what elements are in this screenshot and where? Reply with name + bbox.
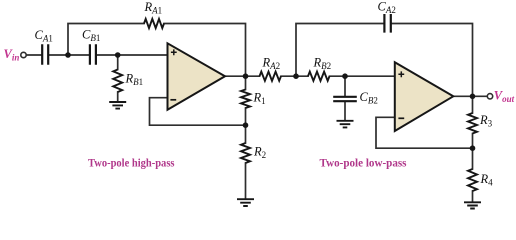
svg-text:CB2: CB2 <box>360 90 378 106</box>
svg-text:Vin: Vin <box>4 47 20 63</box>
wire C_B2 bottom stem to ground <box>344 102 346 120</box>
wire R4 top stem <box>472 148 474 169</box>
resistor RA2 <box>260 72 282 81</box>
op-amp U2 <box>395 62 454 131</box>
svg-text:RA2: RA2 <box>262 56 281 72</box>
resistor RA1 <box>144 19 164 28</box>
capacitor CA1 plates <box>42 44 48 64</box>
resistor RB1 <box>113 70 122 93</box>
wire U1 output to R_A2 <box>225 75 260 77</box>
capacitor CB2 plates <box>333 97 357 101</box>
resistor RB2 <box>308 72 330 81</box>
resistor R3 <box>468 113 477 134</box>
junction R1/R2 feedback node <box>243 122 249 128</box>
wire C_A2 feedback: node C up and across <box>296 24 383 77</box>
junction node A <box>65 52 71 58</box>
ground below R4 <box>464 202 481 208</box>
wire R_A1 feedback: node A up and across <box>68 24 144 56</box>
wire R3 top stem <box>472 96 474 113</box>
resistor R1 <box>241 90 250 109</box>
svg-text:RB1: RB1 <box>125 72 144 88</box>
svg-text:CA1: CA1 <box>35 28 53 44</box>
output terminal <box>487 94 492 99</box>
junction U1 output node <box>243 73 249 79</box>
wire R1 bottom stem <box>245 108 247 125</box>
op-amp U1 <box>168 43 226 110</box>
svg-text:R1: R1 <box>253 91 266 107</box>
junction R3/R4 feedback node <box>470 145 476 151</box>
wire R3 bottom stem <box>472 134 474 149</box>
svg-text:R4: R4 <box>480 172 494 188</box>
ground below CB2 <box>337 121 354 128</box>
wire C_B1 to node B <box>97 54 118 56</box>
junction node B <box>115 52 121 58</box>
svg-text:CB1: CB1 <box>82 28 100 44</box>
svg-text:Two-pole low-pass: Two-pole low-pass <box>320 156 407 170</box>
resistor R2 <box>241 143 250 163</box>
wire node A to C_B1 <box>68 54 89 56</box>
capacitor CB1 plates <box>90 44 96 64</box>
junction node C <box>293 73 299 79</box>
wire R2 bottom stem to ground <box>245 163 247 199</box>
capacitor CA2 plates <box>384 14 390 33</box>
svg-text:Vout: Vout <box>494 89 515 105</box>
svg-text:R2: R2 <box>253 145 266 161</box>
input terminal <box>21 52 26 57</box>
wire R_B1 bottom stem to ground <box>117 92 119 101</box>
wire R_A2 to node C <box>281 75 308 77</box>
svg-text:CA2: CA2 <box>378 0 396 15</box>
wire input terminal to C_A1 <box>26 54 41 56</box>
wire R2 top stem <box>245 125 247 143</box>
wire R_A1 to output node <box>164 24 246 77</box>
wire U1 inverting feedback <box>150 98 246 126</box>
junction node D (RB2/CB2) <box>342 73 348 79</box>
ground below R2 <box>237 199 254 206</box>
wire U2 inverting feedback <box>376 117 473 148</box>
wire R_B1 top stem <box>117 55 119 70</box>
ground below RB1 <box>109 102 126 109</box>
wire R4 bottom stem to ground <box>472 191 474 202</box>
svg-text:RB2: RB2 <box>313 56 332 72</box>
wire C_B2 top stem <box>344 76 346 95</box>
wire R1 top stem <box>245 76 247 89</box>
wire C_A1 to node A <box>49 54 68 56</box>
wire R_B2 to op-amp U2 + input <box>330 75 395 77</box>
svg-text:R3: R3 <box>479 113 493 129</box>
svg-text:RA1: RA1 <box>144 0 163 16</box>
wire node B to op-amp U1 + input <box>118 54 168 56</box>
wire U2 output to terminal Vout <box>453 95 487 97</box>
wire C_A2 to output node <box>392 24 473 97</box>
resistor R4 <box>468 169 477 191</box>
junction U2 output node <box>470 94 476 100</box>
svg-text:Two-pole high-pass: Two-pole high-pass <box>88 156 175 170</box>
